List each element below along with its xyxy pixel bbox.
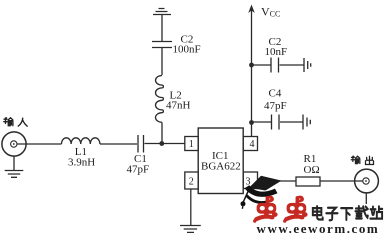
- svg-text:47pF: 47pF: [264, 100, 287, 112]
- label output (shu chu): [351, 156, 373, 164]
- node junction C1/L2: [159, 141, 164, 146]
- node junction Vcc/C4/pin4: [249, 120, 254, 125]
- capacitor C4 47pF: [272, 115, 280, 130]
- svg-text:OΩ: OΩ: [304, 164, 320, 176]
- ground under pin2: [180, 226, 201, 233]
- svg-text:47nH: 47nH: [166, 100, 191, 112]
- wire C1 to pin1: [145, 143, 185, 145]
- pin 4: [243, 137, 257, 151]
- ground under input: [5, 156, 24, 178]
- resistor R1: [296, 177, 320, 186]
- capacitor C1: [138, 135, 144, 153]
- op-amp IC1 body: [198, 128, 243, 194]
- ground right of C4 (sideways): [303, 115, 310, 130]
- wire R1 to output: [320, 180, 363, 182]
- output connector J2: [355, 169, 379, 193]
- svg-text:100nF: 100nF: [173, 44, 201, 56]
- watermark graduation cap: [241, 176, 282, 209]
- ground top (above C2 100nF): [153, 9, 171, 42]
- svg-text:BGA622: BGA622: [201, 160, 241, 172]
- wire C2 to ground right: [280, 64, 304, 66]
- svg-text:10nF: 10nF: [265, 46, 288, 58]
- wire Vcc to C2 10nF: [252, 64, 271, 66]
- wire pin2 to ground: [190, 189, 192, 225]
- inductor L1: [62, 138, 100, 144]
- svg-text:1: 1: [189, 139, 194, 150]
- svg-text:3.9nH: 3.9nH: [68, 157, 95, 169]
- wire output connector down: [365, 193, 367, 204]
- svg-text:2: 2: [189, 177, 194, 188]
- pin 3: [243, 172, 257, 189]
- wire C4 to ground right: [280, 121, 303, 123]
- inductor L2: [155, 76, 163, 144]
- pin 1: [185, 137, 198, 151]
- svg-text:47pF: 47pF: [127, 164, 150, 176]
- pin 2: [185, 172, 198, 189]
- svg-text:4: 4: [250, 139, 255, 150]
- wire input to L1: [17, 143, 62, 145]
- ground right of C2 (sideways): [304, 58, 311, 72]
- Vcc arrow and rail: [248, 5, 255, 137]
- input connector J1: [2, 132, 26, 156]
- capacitor C2 10nF: [271, 58, 279, 73]
- svg-text:C4: C4: [269, 88, 282, 100]
- label input (shu ru): [4, 118, 28, 126]
- node junction Vcc/C2: [249, 63, 254, 68]
- wire Vcc to C4: [252, 121, 272, 123]
- capacitor C2 100nF: [152, 42, 172, 76]
- watermark text dian zi xia zai zhan: [313, 206, 382, 220]
- svg-text:www.eeworm.com: www.eeworm.com: [257, 221, 380, 235]
- watermark chong chong (red): [255, 197, 308, 221]
- wire pin3 to R1: [258, 180, 297, 182]
- wire L1 to C1: [100, 143, 137, 145]
